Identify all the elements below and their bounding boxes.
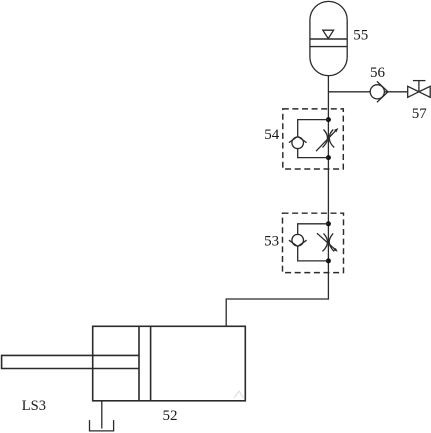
adjustable throttle in 53 <box>317 233 338 252</box>
svg-text:LS3: LS3 <box>22 398 46 414</box>
svg-text:55: 55 <box>353 27 368 43</box>
node: junction top of 54 <box>326 117 331 122</box>
svg-text:53: 53 <box>264 233 279 249</box>
piston <box>138 326 140 401</box>
accumulator 55 <box>310 1 347 75</box>
check valve 56 <box>370 81 388 102</box>
shutoff valve 57 <box>408 81 431 98</box>
throttle check valve assembly 53 (dashed enclosure) <box>283 213 344 272</box>
wire: 56 to valve 57 <box>384 91 407 93</box>
wire: accumulator down to cylinder (main vertical, jog left) <box>226 76 328 327</box>
svg-text:57: 57 <box>412 106 428 122</box>
node: junction top of 53 <box>326 221 331 226</box>
adjustable throttle in 54 <box>316 128 338 151</box>
piston rod <box>2 355 139 368</box>
wire: bypass branch of 53 <box>298 224 329 235</box>
hydraulic cylinder 52 <box>2 326 246 401</box>
wire: branch to check valve 56 <box>328 91 370 93</box>
wire: bypass branch of 54 <box>298 120 329 137</box>
check valve in 54 (ball with seat above) <box>289 136 307 148</box>
node: junction bottom of 53 <box>326 258 331 263</box>
throttle check valve assembly 54 (dashed enclosure) <box>283 109 344 169</box>
svg-text:54: 54 <box>264 127 280 143</box>
svg-text:56: 56 <box>370 65 386 81</box>
tank symbol <box>90 420 114 431</box>
check valve in 53 (ball with seat below) <box>289 234 307 246</box>
node: junction bottom of 54 <box>326 155 331 160</box>
svg-text:52: 52 <box>163 408 178 424</box>
faint watermark arc inside cylinder <box>234 391 244 398</box>
wire: drain line from cylinder <box>101 401 103 429</box>
